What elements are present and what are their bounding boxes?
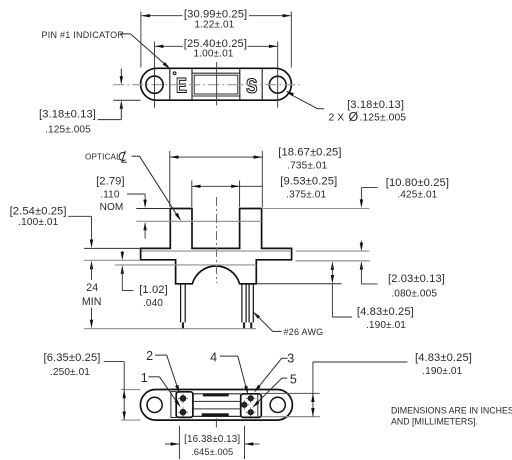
svg-text:.040: .040	[143, 298, 163, 309]
svg-text:1: 1	[141, 371, 148, 385]
top view left mounting hole	[146, 76, 163, 93]
svg-text:[2.79]: [2.79]	[96, 176, 125, 188]
block bottom extension right	[256, 283, 341, 285]
dim 1.02 leader	[121, 251, 134, 291]
lead label 1	[141, 371, 181, 407]
svg-text:AND [MILLIMETERS].: AND [MILLIMETERS].	[391, 417, 478, 427]
lead tip reference line	[84, 328, 256, 330]
top view body outline	[141, 68, 292, 100]
dim 25.40 left extension line	[154, 42, 156, 108]
dim 2.54 text	[10, 206, 67, 229]
dim 24 MIN line	[90, 263, 93, 328]
svg-text:[10.80±0.25]: [10.80±0.25]	[386, 177, 449, 189]
svg-text:3: 3	[287, 351, 294, 365]
sensor marking S	[246, 76, 258, 99]
top view horizontal centerline	[113, 84, 299, 86]
dim 10.80 text	[386, 177, 449, 201]
top view window left edge	[191, 69, 193, 101]
wire gauge leader	[253, 312, 282, 332]
channel outer lines	[193, 394, 241, 417]
front view left lead	[181, 284, 186, 329]
svg-text:OPTICAL: OPTICAL	[85, 153, 121, 162]
dim 1.02 text	[139, 284, 168, 309]
svg-text:DIMENSIONS ARE IN INCHES: DIMENSIONS ARE IN INCHES	[391, 406, 512, 416]
arch top reference line	[115, 264, 257, 266]
bottom view center tick	[215, 418, 217, 427]
svg-text:.100±.01: .100±.01	[18, 217, 58, 228]
tower top extension left	[136, 208, 170, 210]
svg-text:.375±.01: .375±.01	[286, 190, 326, 201]
dim 2.03 text	[388, 273, 445, 299]
dim 4.83 bottom text	[415, 352, 472, 377]
dim 30.99 left extension line	[140, 12, 142, 68]
svg-text:[6.35±0.25]: [6.35±0.25]	[43, 352, 100, 364]
svg-text:2 X: 2 X	[329, 112, 345, 123]
pin 3 middle	[240, 400, 249, 409]
dim 4.83 bottom leader	[311, 362, 407, 417]
top view window inner rect	[194, 75, 238, 94]
dim 2.79 leader	[127, 194, 147, 239]
front view right lead A	[242, 284, 246, 329]
front view body outline	[141, 209, 292, 284]
svg-text:.125±.005: .125±.005	[45, 125, 91, 136]
channel bottom bar	[202, 413, 229, 416]
top view right mounting hole	[269, 76, 286, 93]
channel top bar	[203, 393, 229, 396]
top view section divider left	[169, 69, 171, 101]
dim 9.53 text	[280, 176, 337, 201]
svg-text:2: 2	[146, 349, 153, 363]
top view bottom edge extension left	[113, 99, 140, 101]
dim 6.35 extension lines	[121, 390, 140, 421]
optical centerline leader	[132, 156, 182, 221]
front view optical axis line	[136, 220, 261, 222]
bottom view right mounting hole	[270, 397, 285, 412]
svg-text:[2.54±0.25]: [2.54±0.25]	[10, 206, 67, 218]
svg-text:.425±.01: .425±.01	[397, 190, 437, 201]
front view vertical centerline	[216, 197, 218, 283]
dim 30.99 right extension line	[290, 12, 292, 68]
svg-text:[4.83±0.25]: [4.83±0.25]	[415, 352, 472, 364]
pin 2	[178, 394, 188, 404]
dim 18.67 dimension line	[170, 155, 262, 158]
top view window top edge	[192, 72, 240, 74]
svg-text:[4.83±0.25]: [4.83±0.25]	[357, 306, 414, 318]
dim 4.83 front text	[357, 306, 414, 331]
svg-text:Ø: Ø	[349, 110, 359, 124]
lead label 5	[252, 373, 297, 408]
dim 10.80 leader	[360, 188, 378, 208]
dim 16.38 extension lines	[179, 426, 244, 459]
pin 1	[178, 407, 188, 417]
svg-text:#26 AWG: #26 AWG	[284, 327, 324, 337]
dim 9.53 dimension line	[192, 185, 262, 188]
svg-text:NOM: NOM	[100, 202, 124, 213]
dim 4.83 front leader	[331, 261, 353, 317]
svg-text:.250±.01: .250±.01	[50, 367, 90, 378]
top view section divider right	[261, 69, 263, 101]
svg-text:MIN: MIN	[82, 296, 102, 308]
svg-text:[16.38±0.13]: [16.38±0.13]	[184, 434, 240, 445]
emitter marking E	[176, 74, 187, 97]
flange bottom extension left	[84, 259, 141, 261]
svg-text:.190±.01: .190±.01	[366, 320, 406, 331]
pin 5 bottom right	[246, 408, 255, 417]
svg-text:PIN #1 INDICATOR: PIN #1 INDICATOR	[42, 30, 125, 40]
svg-text:.080±.005: .080±.005	[391, 288, 437, 299]
front view right lead B	[249, 284, 253, 329]
dim 30.99 text	[184, 8, 247, 30]
svg-text:S: S	[246, 76, 258, 99]
flange bottom extension right	[296, 260, 370, 262]
svg-text:[3.18±0.13]: [3.18±0.13]	[39, 108, 96, 120]
hole diameter text	[329, 99, 407, 124]
lead label 2	[146, 349, 179, 393]
pin 1 indicator dot	[173, 72, 176, 75]
dim 6.35 leader	[104, 362, 126, 421]
wire gauge text	[284, 327, 324, 337]
svg-text:[1.02]: [1.02]	[139, 284, 168, 296]
dim 25.40 text	[184, 38, 247, 59]
optical centerline label	[85, 151, 127, 162]
dim 2.79 text	[96, 176, 125, 214]
dim 24 MIN text	[82, 282, 102, 308]
dim 30.99 dimension line	[141, 14, 291, 17]
pin 1 indicator label	[42, 30, 125, 40]
channel inner lines	[193, 401, 241, 409]
svg-text:[2.03±0.13]: [2.03±0.13]	[388, 273, 445, 285]
lead label 3	[254, 351, 294, 392]
dim 9.53 extension lines	[192, 181, 240, 208]
right pin cluster housing	[241, 394, 262, 418]
dim 3.18 left leader	[98, 69, 124, 120]
dim 25.40 dimension line	[155, 45, 278, 48]
dim 3.18 left text	[39, 108, 96, 135]
svg-text:[30.99±0.25]: [30.99±0.25]	[184, 8, 247, 20]
top view center vertical centerline	[216, 62, 218, 106]
bottom view left mounting hole	[147, 397, 162, 412]
dim 2.54 leader	[68, 216, 93, 269]
pin 1 indicator leader	[120, 34, 170, 69]
flange top extension left	[84, 247, 141, 249]
hole diameter leader	[286, 91, 325, 109]
svg-text:24: 24	[86, 282, 98, 294]
svg-text:.645±.005: .645±.005	[191, 447, 233, 457]
left pin cluster housing	[171, 392, 193, 418]
svg-text:.110: .110	[100, 190, 120, 201]
lead label 4	[210, 350, 248, 394]
bottom view body outline	[140, 390, 292, 421]
insert bottom extension right	[261, 416, 320, 418]
tower top extension right	[262, 208, 370, 210]
svg-text:1.00±.01: 1.00±.01	[193, 48, 233, 59]
svg-text:5: 5	[290, 373, 297, 387]
dim 16.38 arrows	[165, 442, 259, 445]
insert top extension right	[261, 392, 320, 394]
svg-text:[18.67±0.25]: [18.67±0.25]	[278, 146, 341, 158]
dim 18.67 extension lines	[170, 151, 262, 207]
svg-text:1.22±.01: 1.22±.01	[194, 20, 234, 31]
svg-text:[9.53±0.25]: [9.53±0.25]	[280, 176, 337, 188]
top view window bottom edge	[192, 95, 240, 97]
dim 25.40 right extension line	[277, 42, 279, 108]
top view window right edge	[239, 69, 241, 101]
svg-text:.190±.01: .190±.01	[422, 366, 462, 377]
svg-text:.735±.01: .735±.01	[287, 161, 327, 172]
dim 6.35 text	[43, 352, 100, 378]
pin 4 top right	[246, 394, 255, 403]
dim 16.38 text	[184, 434, 240, 457]
units note	[391, 406, 512, 427]
svg-text:4: 4	[210, 350, 217, 364]
dim 2.03 leader	[360, 241, 378, 284]
dim 18.67 text	[278, 146, 341, 171]
svg-text:.125±.005: .125±.005	[360, 112, 407, 123]
tab top line	[142, 250, 370, 252]
svg-text:E: E	[176, 74, 187, 97]
